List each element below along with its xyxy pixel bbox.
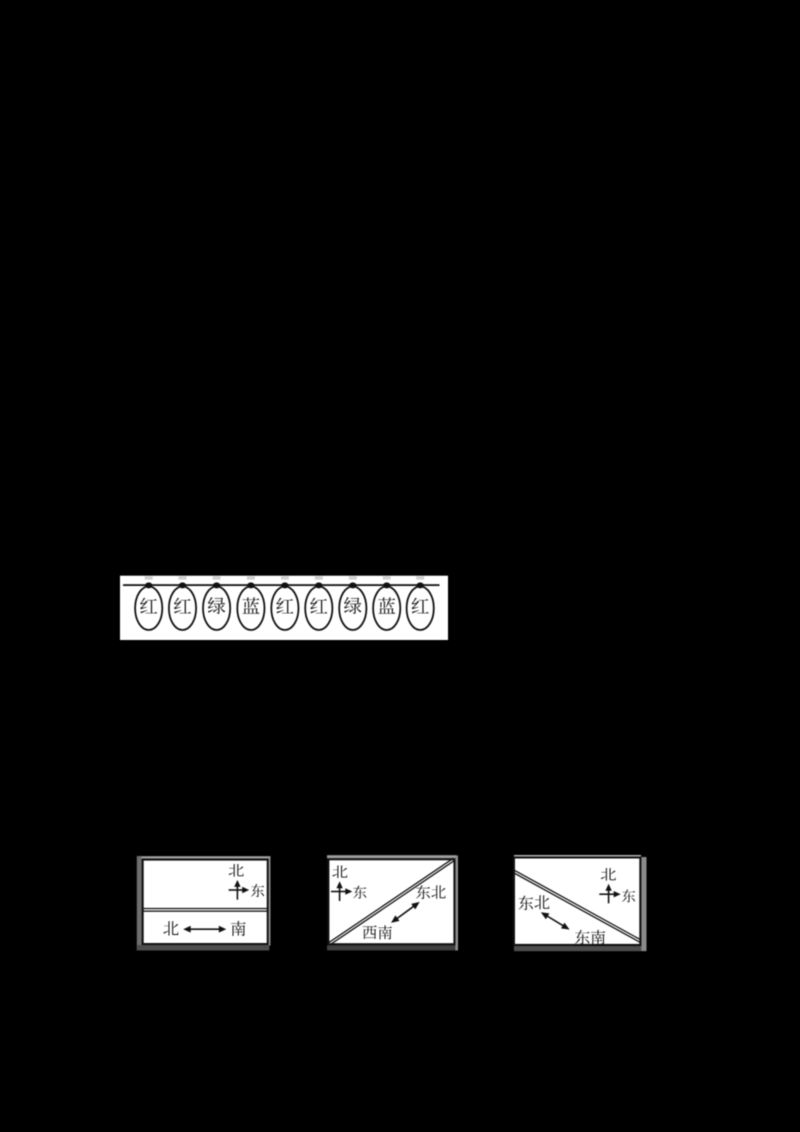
map panel P1 frame [143, 860, 268, 944]
P2 compass vertical arrowhead [336, 881, 342, 888]
P3 southeast label char south [591, 930, 605, 945]
map panel P1 shadow left [137, 856, 142, 951]
map panel P3 frame [514, 858, 640, 945]
lantern L6 label 红 [310, 598, 327, 614]
P3 compass east label [622, 889, 635, 902]
P2 double arrowhead SW [391, 915, 400, 923]
lantern L7 hook knot [349, 582, 356, 588]
lantern L6 hook knot [315, 582, 322, 588]
map panel P1 shadow right [269, 857, 271, 946]
map panel P2 frame [328, 859, 454, 944]
lantern L6 body [305, 586, 332, 630]
P1 compass north label [229, 864, 244, 877]
P1 bottom label north [163, 921, 178, 935]
P2 southwest label char south [378, 925, 392, 939]
lantern L3 hook smudge [213, 576, 221, 579]
lantern L1 hook smudge [145, 576, 153, 579]
lantern L3 hook knot [213, 582, 220, 588]
lantern L4 hook knot [247, 582, 254, 588]
lantern L5 hook smudge [281, 576, 289, 579]
lantern L2 body [169, 586, 196, 630]
lantern L5 label 红 [276, 598, 293, 614]
P3 northeast label char east [518, 896, 533, 911]
map panel P1 shadow top [142, 856, 271, 858]
lantern L5 body [271, 586, 298, 630]
P1 double arrowhead left [183, 926, 191, 933]
P3 compass horizontal arrow shaft [599, 893, 615, 895]
lantern L8 hook knot [383, 582, 390, 588]
lantern L2 hook smudge [179, 576, 187, 579]
P1 double arrow shaft [189, 928, 220, 930]
lantern L8 label 蓝 [378, 597, 395, 613]
P3 compass vertical arrowhead [605, 884, 611, 891]
P3 double arrow shaft [546, 916, 564, 927]
P1 compass vertical arrowhead [234, 880, 240, 887]
map panel P2 shadow top [327, 855, 456, 858]
lantern L3 label 绿 [208, 597, 225, 614]
lantern L6 hook smudge [315, 576, 323, 579]
P1 double arrowhead right [219, 926, 227, 933]
lantern L1 hook knot [145, 582, 152, 588]
lantern L4 body [237, 586, 264, 630]
lantern L1 body [135, 586, 162, 630]
P1 bottom label south [231, 921, 246, 936]
lantern L9 body [407, 586, 434, 630]
P2 northeast label char east [416, 885, 430, 899]
map panel P2 road line lower [329, 858, 454, 942]
P1 compass horizontal arrowhead [242, 887, 249, 893]
P3 double arrowhead SE [561, 923, 570, 930]
P3 southeast label char east [575, 930, 590, 945]
P2 compass horizontal arrow shaft [331, 891, 347, 893]
P2 compass horizontal arrowhead [345, 888, 352, 894]
P3 compass horizontal arrowhead [614, 891, 621, 897]
map panel P3 road line lower [514, 870, 641, 940]
P2 compass north label [332, 866, 347, 879]
lantern L7 label 绿 [344, 597, 361, 614]
map panel P1 road line lower [143, 911, 268, 912]
map panel P2 shadow bottom [327, 945, 458, 950]
lantern L3 body [203, 586, 230, 630]
P2 compass east label [353, 886, 366, 899]
P1 compass horizontal arrow shaft [229, 889, 245, 891]
P3 compass vertical arrow shaft [608, 887, 610, 904]
lantern L8 hook smudge [383, 576, 391, 579]
lantern L9 hook smudge [416, 576, 424, 579]
map panel P2 road line upper [330, 860, 455, 944]
lantern L2 hook knot [179, 582, 186, 588]
lantern L4 label 蓝 [242, 597, 259, 613]
P2 compass vertical arrow shaft [339, 884, 341, 901]
lantern L5 hook knot [281, 582, 288, 588]
string wire [123, 584, 440, 586]
map panel P3 shadow bottom [514, 946, 647, 951]
figure panel: lantern string background [120, 576, 448, 640]
map panel P1 shadow bottom [137, 945, 269, 951]
lantern L7 hook smudge [349, 576, 357, 579]
P2 double arrowhead NE [411, 902, 420, 910]
P3 compass north label [601, 868, 616, 881]
map panel P3 shadow top [514, 855, 641, 857]
P3 northeast label char north [535, 895, 550, 909]
P1 compass vertical arrow shaft [237, 883, 239, 900]
lantern L8 body [373, 586, 400, 630]
P3 double arrowhead NW [541, 912, 550, 919]
P2 southwest label char west [363, 925, 377, 939]
lantern L1 label 红 [140, 598, 157, 614]
lantern L7 body [339, 586, 366, 630]
map panel P2 shadow right [455, 855, 458, 950]
lantern L9 hook knot [417, 582, 424, 588]
P2 double arrow shaft [396, 906, 414, 919]
lantern L9 label 红 [412, 598, 429, 614]
P2 northeast label char north [431, 885, 445, 898]
lantern L2 label 红 [174, 598, 191, 614]
P1 compass east label [251, 884, 264, 897]
map panel P3 shadow right [641, 857, 646, 951]
map panel P1 road line upper [143, 908, 268, 909]
map panel P3 road line upper [513, 873, 640, 943]
lantern L4 hook smudge [247, 576, 255, 579]
